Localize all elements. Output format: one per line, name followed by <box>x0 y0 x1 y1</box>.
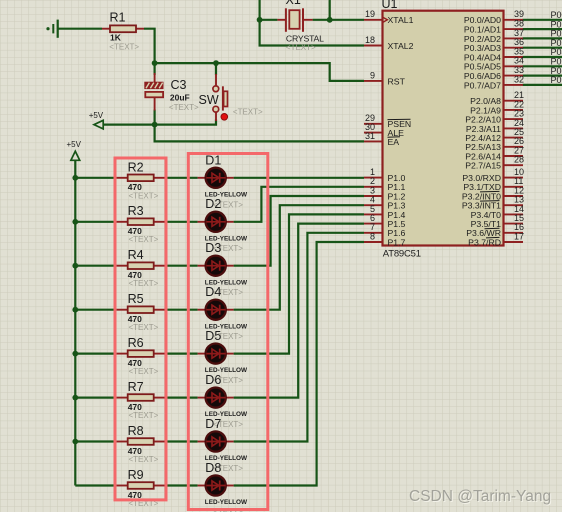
pin 29 PSEN <box>364 113 411 129</box>
wire D3 to P1.2 pin <box>234 196 364 266</box>
pin 36 P0.3/AD3 <box>464 37 524 53</box>
svg-text:+5V: +5V <box>89 111 104 120</box>
wire P0.4 to net label <box>523 56 562 58</box>
junction node B <box>213 60 219 66</box>
wire P0.2 to net label <box>523 37 562 39</box>
svg-text:<TEXT>: <TEXT> <box>129 235 159 244</box>
svg-text:AT89C51: AT89C51 <box>383 248 421 259</box>
resistor R9 <box>117 468 166 508</box>
wire D8 to P1.7 pin <box>234 242 364 486</box>
svg-text:R7: R7 <box>128 380 144 394</box>
svg-text:R5: R5 <box>128 292 144 306</box>
wire P0.3 to net label <box>523 47 562 49</box>
wire crystal to XTAL1 pin <box>313 19 364 21</box>
wire P0.5 to net label <box>523 65 562 67</box>
svg-text:R1: R1 <box>110 11 126 25</box>
svg-text:XTAL1: XTAL1 <box>388 15 414 25</box>
wire node C to EA pin <box>155 125 364 142</box>
svg-text:D8: D8 <box>205 461 221 475</box>
resistor R3 <box>117 204 166 244</box>
junction rail row 6 <box>72 395 78 401</box>
svg-text:8: 8 <box>370 231 375 241</box>
pin 17 P3.7/RD <box>468 231 524 247</box>
LED D3 <box>198 241 248 297</box>
pin 25 P2.4/A12 <box>465 127 524 143</box>
resistor R1 <box>102 11 144 52</box>
pin 39 P0.0/AD0 <box>464 9 524 25</box>
wire crystal right up <box>329 0 331 20</box>
pin 27 P2.6/A14 <box>465 145 524 161</box>
wire R8 to D7 <box>165 440 197 442</box>
pin 14 P3.4/T0 <box>471 204 524 220</box>
wire crystal left up <box>259 0 261 20</box>
svg-text:9: 9 <box>370 70 375 80</box>
net label P06 <box>551 66 562 76</box>
pin 7 P1.6 <box>364 222 406 238</box>
pin 33 P0.6/AD6 <box>464 65 524 81</box>
net label P04 <box>551 47 562 57</box>
pin 12 P3.2/INT0 <box>462 185 524 201</box>
svg-text:<TEXT>: <TEXT> <box>129 191 159 200</box>
pin 4 P1.3 <box>364 195 406 211</box>
wire rail to R7 <box>75 397 116 399</box>
resistor R7 <box>117 380 166 420</box>
resistor R4 <box>117 248 166 288</box>
svg-text:R2: R2 <box>128 160 144 174</box>
wire rail to R5 <box>75 309 116 311</box>
junction rail row 2 <box>72 219 78 225</box>
LED D6 <box>198 373 248 429</box>
svg-text:R8: R8 <box>128 424 144 438</box>
svg-text:<TEXT>: <TEXT> <box>129 323 159 332</box>
wire D6 to P1.5 pin <box>234 224 364 398</box>
wire rail to R2 <box>75 177 116 179</box>
pin 15 P3.5/T1 <box>471 213 524 229</box>
svg-text:18: 18 <box>365 35 375 45</box>
pin 9 RST <box>364 70 406 86</box>
LED D7 <box>198 417 248 473</box>
power +5V left <box>89 111 104 129</box>
svg-text:<TEXT>: <TEXT> <box>129 411 159 420</box>
ground <box>46 20 57 38</box>
wire +5V rail <box>74 161 76 486</box>
junction rail row 7 <box>72 439 78 445</box>
wire to XTAL2 pin <box>260 20 364 46</box>
LED D4 <box>198 285 248 341</box>
svg-text:D2: D2 <box>205 197 221 211</box>
pin 31 EA <box>364 131 400 147</box>
svg-text:R4: R4 <box>128 248 144 262</box>
svg-text:P07: P07 <box>551 75 562 85</box>
wire C3 bottom to node C <box>154 110 156 125</box>
svg-text:R3: R3 <box>128 204 144 218</box>
wire D1 to P1.0 pin <box>234 177 364 179</box>
pin 30 ALE <box>364 122 404 138</box>
resistor R6 <box>117 336 166 376</box>
pin 3 P1.2 <box>364 185 406 201</box>
wire node A to C3 top <box>154 63 156 75</box>
svg-text:<TEXT>: <TEXT> <box>286 43 316 52</box>
svg-text:D7: D7 <box>205 417 221 431</box>
net label P01 <box>551 19 562 29</box>
resistor R8 <box>117 424 166 464</box>
selection box resistors <box>115 158 166 500</box>
pin 18 XTAL2 <box>364 35 414 51</box>
pin 16 P3.6/WR <box>466 222 524 238</box>
svg-text:17: 17 <box>514 231 524 241</box>
svg-text:D3: D3 <box>205 241 221 255</box>
svg-text:+5V: +5V <box>67 140 82 149</box>
svg-text:D1: D1 <box>205 153 221 167</box>
pin 19 XTAL1 <box>364 9 414 25</box>
wire node B to RST pin <box>216 63 364 81</box>
svg-text:<TEXT>: <TEXT> <box>129 279 159 288</box>
pin 23 P2.2/A10 <box>465 109 524 125</box>
svg-text:C3: C3 <box>171 78 187 92</box>
pin 34 P0.5/AD5 <box>464 56 524 72</box>
pin 35 P0.4/AD4 <box>464 46 524 62</box>
net label P03 <box>551 38 562 48</box>
svg-text:<TEXT>: <TEXT> <box>129 455 159 464</box>
wire R7 to D6 <box>165 397 197 399</box>
wire node B to SW top <box>215 63 217 75</box>
svg-text:<TEXT>: <TEXT> <box>109 43 139 52</box>
svg-text:LED-YELLOW: LED-YELLOW <box>205 499 248 506</box>
svg-text:31: 31 <box>365 131 375 141</box>
svg-text:XTAL2: XTAL2 <box>388 41 414 51</box>
LED D5 <box>198 329 248 385</box>
svg-text:D4: D4 <box>205 285 221 299</box>
svg-text:D5: D5 <box>205 329 221 343</box>
junction node C <box>152 122 158 128</box>
svg-text:32: 32 <box>514 74 524 84</box>
LED D2 <box>198 197 248 253</box>
wire P0.6 to net label <box>523 74 562 76</box>
pin 21 P2.0/A8 <box>470 90 524 106</box>
svg-text:X1: X1 <box>286 0 301 7</box>
wire P0.0 to net label <box>523 19 562 21</box>
wire rail to R6 <box>75 353 116 355</box>
junction node A <box>152 60 158 66</box>
net label P00 <box>551 10 562 20</box>
wire R3 to D2 <box>165 221 197 223</box>
pin 1 P1.0 <box>364 167 406 183</box>
watermark <box>409 488 551 505</box>
pin 13 P3.3/INT1 <box>462 195 524 211</box>
pin 2 P1.1 <box>364 176 406 192</box>
junction rail row 1 <box>72 175 78 181</box>
junction rail row 5 <box>72 351 78 357</box>
wire ground to R1 <box>58 28 103 30</box>
LED D1 <box>198 153 248 209</box>
op-amp U1 body AT89C51 <box>382 0 504 259</box>
wire R2 to D1 <box>165 177 197 179</box>
pin 32 P0.7/AD7 <box>464 74 524 90</box>
resistor R5 <box>117 292 166 332</box>
wire rail to R8 <box>75 440 116 442</box>
svg-text:P0.7/AD7: P0.7/AD7 <box>464 80 501 90</box>
pin 26 P2.5/A13 <box>465 136 524 152</box>
selection box LEDs <box>188 154 267 510</box>
svg-text:P3.7/RD: P3.7/RD <box>468 237 501 247</box>
svg-text:EA: EA <box>388 137 400 147</box>
svg-text:<TEXT>: <TEXT> <box>169 103 199 112</box>
svg-text:CRYSTAL: CRYSTAL <box>286 34 324 44</box>
wire P0.7 to net label <box>523 84 562 86</box>
wire D5 to P1.4 pin <box>234 214 364 353</box>
svg-text:SW: SW <box>199 93 219 107</box>
wire D4 to P1.3 pin <box>234 205 364 310</box>
pin 38 P0.1/AD1 <box>464 19 524 35</box>
svg-text:20uF: 20uF <box>170 93 190 103</box>
wire R1 to node A <box>144 29 155 63</box>
wire R9 to D8 <box>165 484 197 486</box>
pin 11 P3.1/TXD <box>463 176 523 192</box>
svg-text:19: 19 <box>365 9 375 19</box>
svg-text:RST: RST <box>388 76 406 86</box>
pin 28 P2.7/A15 <box>465 155 524 171</box>
junction rail row 3 <box>72 263 78 269</box>
wire R5 to D4 <box>165 309 197 311</box>
pin 5 P1.4 <box>364 204 406 220</box>
resistor R2 <box>117 160 166 200</box>
wire node A to node B <box>155 62 216 64</box>
pin 24 P2.3/A11 <box>466 118 524 134</box>
wire D7 to P1.6 pin <box>234 233 364 442</box>
capacitor C3 <box>144 73 199 112</box>
svg-text:P1.7: P1.7 <box>388 237 406 247</box>
pin 8 P1.7 <box>364 231 406 247</box>
pin 22 P2.1/A9 <box>470 99 524 115</box>
net label P07 <box>551 75 562 85</box>
wire rail to R9 <box>75 484 116 486</box>
wire rail to R3 <box>75 221 116 223</box>
wire P0.1 to net label <box>523 28 562 30</box>
svg-text:R6: R6 <box>128 336 144 350</box>
pin 10 P3.0/RXD <box>462 167 524 183</box>
svg-text:1K: 1K <box>110 32 122 42</box>
svg-text:<TEXT>: <TEXT> <box>129 367 159 376</box>
junction rail row 4 <box>72 307 78 313</box>
wire +5V terminal to node C <box>103 123 154 125</box>
svg-text:U1: U1 <box>382 0 398 11</box>
wire D2 to P1.1 pin <box>234 187 364 222</box>
net label P02 <box>551 29 562 39</box>
crystal X1 <box>277 0 324 52</box>
power +5V rail <box>67 140 82 160</box>
svg-text:R9: R9 <box>128 468 144 482</box>
svg-text:CSDN @Tarim-Yang: CSDN @Tarim-Yang <box>409 488 551 505</box>
wire R6 to D5 <box>165 353 197 355</box>
wire left node to crystal <box>260 19 278 21</box>
svg-text:P2.7/A15: P2.7/A15 <box>465 161 501 171</box>
wire rail to R4 <box>75 265 116 267</box>
switch SW <box>199 74 264 121</box>
svg-text:<TEXT>: <TEXT> <box>233 108 263 117</box>
pin 37 P0.2/AD2 <box>464 28 524 44</box>
svg-text:28: 28 <box>514 155 524 165</box>
svg-text:D6: D6 <box>205 373 221 387</box>
junction node XTAL left <box>257 17 263 23</box>
pin 6 P1.5 <box>364 213 406 229</box>
LED D8 <box>198 461 248 517</box>
wire R4 to D3 <box>165 265 197 267</box>
wire node C to SW bottom <box>155 120 216 125</box>
junction node XTAL right <box>327 17 333 23</box>
net label P05 <box>551 57 562 67</box>
